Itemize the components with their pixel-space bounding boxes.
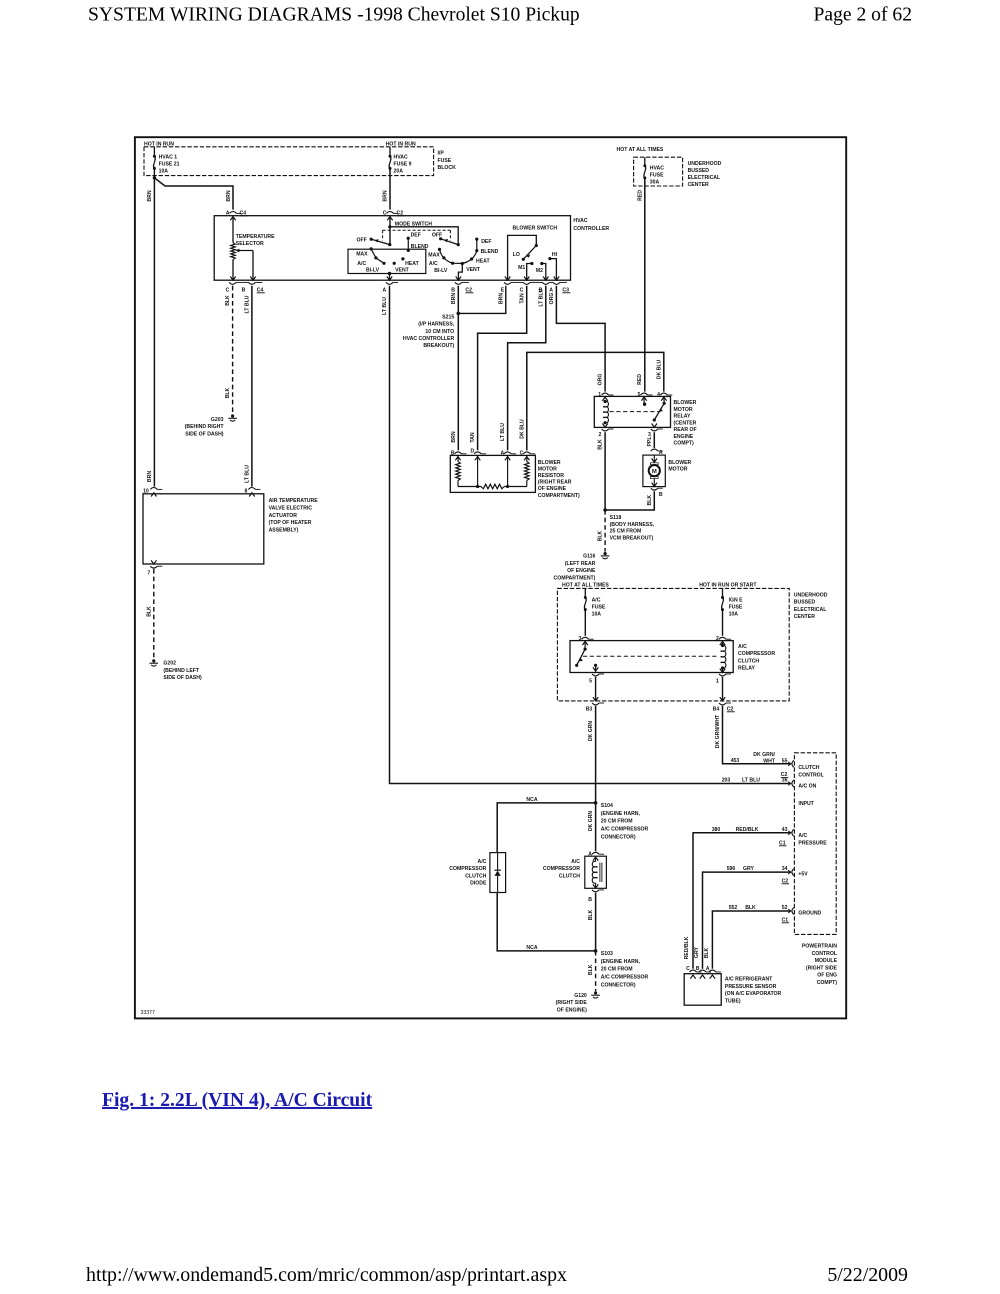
splice S215 <box>457 312 461 316</box>
A/C refrigerant pressure sensor box <box>684 974 721 1006</box>
wire pin1 to UBEC edge B4 C2 <box>722 677 724 701</box>
svg-text:5: 5 <box>589 678 592 684</box>
wire BLK dashed from pin C to G203 <box>232 286 234 414</box>
link to second wafer common <box>390 227 458 245</box>
svg-text:A/C COMPRESSOR: A/C COMPRESSOR <box>601 975 649 981</box>
wafer 2 contact arc <box>440 249 477 263</box>
svg-text:COMPARTMENT): COMPARTMENT) <box>554 575 596 581</box>
clutch coil symbol <box>595 856 597 861</box>
fuse HVAC FUSE 9 20A <box>389 147 391 157</box>
svg-text:380: 380 <box>712 827 721 833</box>
svg-text:A: A <box>226 210 230 216</box>
relay connector pins 1 5 4 <box>602 393 609 395</box>
fuse HVAC FUSE 30A <box>644 157 646 166</box>
svg-text:A: A <box>549 287 553 293</box>
svg-text:S215: S215 <box>442 314 454 320</box>
svg-text:LT BLU: LT BLU <box>500 423 506 441</box>
connector C3 below blower switch <box>504 282 511 284</box>
pin B arrow (controller bottom) <box>250 277 255 281</box>
svg-text:2: 2 <box>716 636 719 642</box>
underhood bussed electrical center dashed box (bottom) <box>557 588 789 701</box>
wafer 1 contact arc <box>371 249 384 263</box>
svg-text:BRN: BRN <box>451 431 457 442</box>
svg-text:ENGINE: ENGINE <box>674 434 694 440</box>
svg-text:SYSTEM WIRING DIAGRAMS -1998 C: SYSTEM WIRING DIAGRAMS -1998 Chevrolet S… <box>88 5 580 26</box>
svg-text:10A: 10A <box>592 611 602 617</box>
svg-text:LT BLU: LT BLU <box>538 288 544 306</box>
svg-text:BRN: BRN <box>147 190 153 201</box>
svg-text:ORG: ORG <box>598 374 604 386</box>
air temperature valve electric actuator box <box>143 494 264 564</box>
svg-text:DK BLU: DK BLU <box>656 360 662 380</box>
svg-text:(BEHIND LEFT: (BEHIND LEFT <box>163 668 200 674</box>
connector pin B C2 below wafer 2 <box>455 282 462 284</box>
svg-text:CLUTCH: CLUTCH <box>465 873 486 879</box>
svg-text:BLK: BLK <box>588 909 594 920</box>
svg-text:1: 1 <box>716 678 719 684</box>
wire BLK dashed to G120 <box>595 951 597 991</box>
svg-text:BRN: BRN <box>451 293 457 304</box>
sensor pin connectors C B A <box>690 970 697 972</box>
fuse HVAC 1 FUSE 21 10A <box>153 147 155 157</box>
svg-text:C: C <box>383 210 387 216</box>
svg-text:A/C ON: A/C ON <box>798 784 816 790</box>
svg-text:BLK: BLK <box>704 947 710 958</box>
pin 7 connector (actuator bottom) <box>151 560 156 564</box>
wafer 1 HEAT contact <box>401 257 404 260</box>
svg-text:HOT AT ALL TIMES: HOT AT ALL TIMES <box>617 147 664 153</box>
wire BRN from fuse 9 to pin C C2 <box>389 168 391 209</box>
powertrain control module dashed box <box>794 753 836 935</box>
svg-text:(LEFT REAR: (LEFT REAR <box>565 561 596 567</box>
svg-text:S103: S103 <box>601 951 613 957</box>
junction below fuse 21 <box>153 168 155 177</box>
svg-text:OF ENGINE: OF ENGINE <box>538 486 567 492</box>
svg-text:20 CM FROM: 20 CM FROM <box>601 967 633 973</box>
svg-text:HI: HI <box>552 252 558 258</box>
svg-text:BI-LV: BI-LV <box>434 268 448 274</box>
svg-text:203: 203 <box>722 778 731 784</box>
connector pin C C2 (controller top) <box>387 212 394 214</box>
svg-text:C: C <box>520 287 524 293</box>
ground G202 <box>152 659 155 662</box>
svg-text:3: 3 <box>579 636 582 642</box>
wire RED from fuse 30A to blower motor relay pin 5 <box>644 179 646 392</box>
svg-text:TAN: TAN <box>519 293 525 303</box>
svg-text:BLK: BLK <box>146 606 152 617</box>
svg-text:(TOP OF HEATER: (TOP OF HEATER <box>269 520 312 526</box>
M2 contact <box>540 262 543 265</box>
svg-text:B: B <box>659 492 663 498</box>
svg-text:A/C: A/C <box>798 833 807 839</box>
relay dashed linkage <box>610 411 661 413</box>
wire TAN from pin C to resistor pin D <box>478 286 527 451</box>
svg-text:CENTER: CENTER <box>688 182 709 188</box>
svg-text:(RIGHT SIDE: (RIGHT SIDE <box>806 965 838 971</box>
wire DK GRN/WHT B4 to PCM pin 55 <box>723 706 791 764</box>
svg-text:CLUTCH: CLUTCH <box>738 658 759 664</box>
blower motor resistor box <box>450 455 535 492</box>
svg-text:BLK: BLK <box>225 295 231 306</box>
wire NCA top <box>497 803 595 853</box>
svg-text:55: 55 <box>782 759 788 765</box>
svg-text:G202: G202 <box>163 661 176 667</box>
svg-text:A/C: A/C <box>357 261 366 267</box>
wire DK GRN B3 to S104 <box>595 706 597 803</box>
clutch relay pins 3 and 2 connectors <box>582 637 589 639</box>
wire RED/BLK sensor C to PCM pin 43 <box>692 833 695 969</box>
svg-text:CONTROLLER: CONTROLLER <box>573 226 609 232</box>
svg-text:M: M <box>652 469 657 475</box>
svg-text:VALVE ELECTRIC: VALVE ELECTRIC <box>269 506 313 512</box>
wire PPL relay pin 3 to motor pin A <box>653 432 655 448</box>
PCM pin 55 connector <box>788 762 791 766</box>
wire BLK dashed to G116 <box>604 510 606 552</box>
PCM pin 43 connector <box>788 831 791 835</box>
svg-text:A/C: A/C <box>571 859 580 865</box>
svg-text:RELAY: RELAY <box>674 414 692 420</box>
svg-text:MOTOR: MOTOR <box>674 407 693 413</box>
svg-text:BRN: BRN <box>383 190 389 201</box>
svg-text:B: B <box>242 287 246 293</box>
schematic border frame <box>135 137 846 1018</box>
svg-text:PPL: PPL <box>647 437 653 447</box>
svg-text:CONNECTOR): CONNECTOR) <box>601 983 636 989</box>
svg-text:MOTOR: MOTOR <box>668 467 687 473</box>
wire DK GRN S104 to clutch pin A <box>595 803 597 851</box>
svg-text:DK GRN: DK GRN <box>588 721 594 742</box>
blower motor box <box>643 455 665 487</box>
relay pins 2 3 connectors <box>602 429 609 431</box>
PCM pin 34 connector <box>788 870 791 874</box>
relay pin 5 contact <box>643 396 645 404</box>
svg-text:DEF: DEF <box>411 233 421 239</box>
blower motor relay box <box>594 396 670 427</box>
splice S118 <box>603 508 607 512</box>
svg-text:HVAC 1: HVAC 1 <box>159 154 178 160</box>
svg-text:RED: RED <box>637 374 643 385</box>
svg-text:FUSE: FUSE <box>592 605 606 611</box>
svg-text:BLEND: BLEND <box>411 244 429 250</box>
svg-text:S104: S104 <box>601 803 613 809</box>
svg-text:COMPRESSOR: COMPRESSOR <box>738 651 775 657</box>
svg-text:GRY: GRY <box>694 946 700 958</box>
wafer 1 common output <box>388 272 391 275</box>
wire BRN down to actuator pin 10 <box>153 178 155 487</box>
svg-text:RESISTOR: RESISTOR <box>538 473 564 479</box>
wafer 1 DEF-BLEND contacts <box>407 237 410 240</box>
HI contact <box>548 257 551 260</box>
svg-text:C: C <box>225 287 229 293</box>
svg-text:G116: G116 <box>583 553 595 559</box>
svg-text:30A: 30A <box>650 179 660 185</box>
svg-text:VENT: VENT <box>395 268 410 274</box>
svg-text:UNDERHOOD: UNDERHOOD <box>688 161 722 167</box>
svg-text:36: 36 <box>782 778 788 784</box>
mode switch feed wire and junction <box>389 217 391 245</box>
svg-text:7: 7 <box>147 571 150 577</box>
svg-text:CLUTCH: CLUTCH <box>798 765 819 771</box>
wafer 1 VENT contact <box>393 262 396 265</box>
wire pin5 to UBEC edge B3 <box>595 677 597 701</box>
svg-text:Page 2 of 62: Page 2 of 62 <box>814 5 913 26</box>
svg-text:(BEHIND RIGHT: (BEHIND RIGHT <box>185 424 225 430</box>
svg-text:43: 43 <box>782 827 788 833</box>
clutch relay switch <box>584 641 586 650</box>
svg-text:BUSSED: BUSSED <box>688 168 710 174</box>
svg-text:(RIGHT REAR: (RIGHT REAR <box>538 480 572 486</box>
svg-text:RED/BLK: RED/BLK <box>684 936 690 959</box>
svg-text:CLUTCH: CLUTCH <box>559 873 580 879</box>
resistor connector pins B D A C <box>455 452 462 454</box>
motor pin B connector <box>651 488 658 490</box>
blower switch feed line <box>508 235 537 280</box>
svg-text:COMPT): COMPT) <box>674 441 695 447</box>
connector pin 8 (actuator top) <box>248 488 255 490</box>
clutch pin A connector <box>592 852 599 854</box>
ground G203 <box>231 414 234 417</box>
svg-text:SIDE OF DASH): SIDE OF DASH) <box>163 675 202 681</box>
svg-text:HEAT: HEAT <box>476 258 490 264</box>
svg-text:DEF: DEF <box>481 239 491 245</box>
wire DK BLU resistor pin C to relay pin 4 <box>527 352 664 450</box>
connector pin A C4 (controller top) <box>230 212 237 214</box>
svg-text:BLEND: BLEND <box>481 249 499 255</box>
pin C arrow (controller bottom) <box>230 277 235 281</box>
splice S104 <box>594 801 598 805</box>
svg-text:COMPT): COMPT) <box>817 980 838 986</box>
A/C compressor clutch relay box <box>570 641 733 673</box>
svg-text:552: 552 <box>729 905 738 911</box>
mechanical linkage dashed line <box>383 229 451 231</box>
svg-text:OFF: OFF <box>357 237 367 243</box>
svg-text:A/C: A/C <box>429 261 438 267</box>
HVAC controller box <box>214 216 570 281</box>
svg-text:ELECTRICAL: ELECTRICAL <box>794 607 827 613</box>
svg-text:B3: B3 <box>586 706 593 712</box>
svg-text:WHT: WHT <box>763 759 776 765</box>
svg-text:A/C: A/C <box>592 598 601 604</box>
svg-text:IGN E: IGN E <box>729 598 744 604</box>
mode switch wafer 1 position box <box>348 249 426 273</box>
svg-text:SELECTOR: SELECTOR <box>236 241 264 247</box>
svg-text:BLK: BLK <box>647 495 653 506</box>
svg-text:CENTER: CENTER <box>794 614 815 620</box>
wire BLK dashed to G202 <box>153 569 155 659</box>
svg-text:OF ENGINE: OF ENGINE <box>567 568 596 574</box>
svg-text:TUBE): TUBE) <box>725 999 741 1005</box>
wire BRN branch to HVAC controller pin A <box>154 178 233 210</box>
svg-text:C: C <box>686 966 690 972</box>
relay coil <box>602 397 607 401</box>
svg-text:GRY: GRY <box>743 866 755 872</box>
svg-text:INPUT: INPUT <box>798 801 814 807</box>
svg-text:http://www.ondemand5.com/mric/: http://www.ondemand5.com/mric/common/asp… <box>86 1264 567 1286</box>
svg-text:BI-LV: BI-LV <box>366 268 380 274</box>
wire BRN wafer2 output to S215 and resistor pin B <box>457 286 459 451</box>
clutch relay pins 5 1 connectors <box>592 674 599 676</box>
wafer 2 common output jog <box>458 264 462 281</box>
potentiometer wiper arm <box>239 250 253 252</box>
svg-text:52: 52 <box>782 905 788 911</box>
svg-text:DK GRN/: DK GRN/ <box>753 752 775 758</box>
svg-text:10 CM INTO: 10 CM INTO <box>425 329 454 335</box>
wire A/C fuse to relay pin 3 <box>584 610 586 636</box>
svg-text:HEAT: HEAT <box>405 261 419 267</box>
svg-text:VCM BREAKOUT): VCM BREAKOUT) <box>610 535 654 541</box>
ground G116 <box>604 552 607 555</box>
clutch relay dashed linkage <box>583 655 719 657</box>
ground G120 <box>594 991 597 994</box>
svg-text:CONTROL: CONTROL <box>798 772 823 778</box>
underhood bussed electrical center dashed box (top) <box>634 157 683 186</box>
svg-text:33377: 33377 <box>141 1010 156 1016</box>
svg-text:A/C: A/C <box>478 859 487 865</box>
svg-text:I/P: I/P <box>438 151 445 157</box>
relay switch arm <box>663 397 665 403</box>
svg-text:453: 453 <box>731 758 740 764</box>
svg-text:RED: RED <box>637 190 643 201</box>
svg-text:(RIGHT SIDE: (RIGHT SIDE <box>556 1000 588 1006</box>
svg-text:MAX: MAX <box>356 252 368 258</box>
svg-text:10A: 10A <box>159 169 169 175</box>
svg-text:BLK: BLK <box>225 387 231 398</box>
svg-text:M1: M1 <box>518 265 525 271</box>
svg-text:COMPRESSOR: COMPRESSOR <box>543 866 580 872</box>
svg-text:PRESSURE SENSOR: PRESSURE SENSOR <box>725 984 777 990</box>
svg-text:CONTROL: CONTROL <box>812 951 837 957</box>
connector pin 10 (actuator top) <box>150 488 157 490</box>
temperature selector potentiometer <box>232 217 234 243</box>
wire LT BLU from pin B to actuator pin 8 <box>251 286 253 487</box>
svg-text:BRN: BRN <box>147 471 153 482</box>
svg-text:MAX: MAX <box>428 252 440 258</box>
PCM pin 52 connector <box>788 909 791 913</box>
svg-text:BRN: BRN <box>226 190 232 201</box>
wire BLK motor pin B to S118 <box>605 491 654 510</box>
wire NCA bottom <box>497 893 595 951</box>
fuse IGN E FUSE 10A <box>722 588 724 597</box>
connector pin A below wafer 1 <box>386 282 393 284</box>
svg-text:COMPRESSOR: COMPRESSOR <box>449 866 486 872</box>
blower switch pin arrows <box>505 277 510 281</box>
svg-text:G120: G120 <box>574 993 587 999</box>
svg-text:REAR OF: REAR OF <box>674 427 697 433</box>
PCM pin 36 connector <box>788 782 791 786</box>
connector C4 below controller (pins C and B) <box>229 282 236 284</box>
wire ORG from pin A to relay pin 1 <box>556 286 605 392</box>
svg-text:NCA: NCA <box>526 797 537 803</box>
svg-text:(BODY HARNESS,: (BODY HARNESS, <box>610 522 655 528</box>
wire BLK clutch pin B to S103 <box>595 893 597 951</box>
svg-text:2: 2 <box>599 432 602 438</box>
svg-text:ACTUATOR: ACTUATOR <box>269 513 298 519</box>
svg-text:PRESSURE: PRESSURE <box>798 840 827 846</box>
svg-text:DK GRN: DK GRN <box>588 811 594 832</box>
svg-text:NCA: NCA <box>526 945 537 951</box>
svg-text:ELECTRICAL: ELECTRICAL <box>688 175 721 181</box>
svg-text:Fig. 1: 2.2L (VIN 4), A/C Circ: Fig. 1: 2.2L (VIN 4), A/C Circuit <box>102 1090 373 1111</box>
clutch pin B connector <box>592 890 599 892</box>
svg-text:FUSE: FUSE <box>438 158 452 164</box>
svg-text:A/C REFRIGERANT: A/C REFRIGERANT <box>725 977 773 983</box>
svg-text:MOTOR: MOTOR <box>538 466 557 472</box>
svg-text:(ENGINE HARN,: (ENGINE HARN, <box>601 811 641 817</box>
svg-text:BLOWER: BLOWER <box>538 460 561 466</box>
svg-text:BREAKOUT): BREAKOUT) <box>423 343 454 349</box>
svg-text:LT BLU: LT BLU <box>245 295 251 313</box>
svg-text:GROUND: GROUND <box>798 910 821 916</box>
svg-text:TAN: TAN <box>470 432 476 442</box>
svg-text:(I/P HARNESS,: (I/P HARNESS, <box>418 322 454 328</box>
svg-text:(ON A/C EVAPORATOR: (ON A/C EVAPORATOR <box>725 991 782 997</box>
svg-text:POWERTRAIN: POWERTRAIN <box>802 944 837 950</box>
svg-text:LT BLU: LT BLU <box>742 778 760 784</box>
svg-text:BLOCK: BLOCK <box>438 165 457 171</box>
svg-text:20 CM FROM: 20 CM FROM <box>601 819 633 825</box>
svg-text:BLOWER: BLOWER <box>674 400 697 406</box>
svg-text:LO: LO <box>513 252 520 258</box>
svg-text:LT BLU: LT BLU <box>382 297 388 315</box>
wire IGN E fuse to relay pin 2 <box>722 610 724 636</box>
svg-text:+5V: +5V <box>798 871 808 877</box>
svg-text:HOT IN RUN OR START: HOT IN RUN OR START <box>699 583 757 589</box>
svg-text:LT BLU: LT BLU <box>245 465 251 483</box>
svg-text:MODULE: MODULE <box>815 958 838 964</box>
wire LT BLU long run to PCM pin 36 <box>390 286 791 784</box>
svg-text:(ENGINE HARN,: (ENGINE HARN, <box>601 959 641 965</box>
A/C compressor clutch box <box>585 856 607 888</box>
svg-text:AIR TEMPERATURE: AIR TEMPERATURE <box>269 498 319 504</box>
svg-text:FUSE 21: FUSE 21 <box>159 162 180 168</box>
svg-text:A/C COMPRESSOR: A/C COMPRESSOR <box>601 827 649 833</box>
svg-text:HVAC: HVAC <box>650 166 664 172</box>
I/P fuse block dashed box <box>144 147 434 176</box>
svg-text:FUSE: FUSE <box>650 173 664 179</box>
svg-text:CONNECTOR): CONNECTOR) <box>601 835 636 841</box>
svg-text:E: E <box>501 287 505 293</box>
svg-text:HVAC CONTROLLER: HVAC CONTROLLER <box>403 336 455 342</box>
diode symbol <box>497 853 499 871</box>
svg-text:M2: M2 <box>536 268 543 274</box>
wire GRY sensor B to PCM pin 34 <box>703 872 791 969</box>
connector B3 <box>592 703 599 705</box>
svg-text:5/22/2009: 5/22/2009 <box>827 1264 908 1286</box>
M1 contact <box>530 262 533 265</box>
svg-text:HOT AT ALL TIMES: HOT AT ALL TIMES <box>562 583 609 589</box>
svg-text:FUSE 9: FUSE 9 <box>394 162 412 168</box>
svg-text:COMPARTMENT): COMPARTMENT) <box>538 493 580 499</box>
svg-text:S118: S118 <box>610 515 622 521</box>
svg-text:34: 34 <box>782 866 788 872</box>
connector B4 C2 <box>719 703 726 705</box>
A/C compressor clutch diode box <box>490 853 506 893</box>
svg-text:A/C: A/C <box>738 644 747 650</box>
blower switch arm to LO <box>523 246 536 260</box>
svg-text:B4: B4 <box>713 706 720 712</box>
svg-text:BLK: BLK <box>745 905 756 911</box>
splice S103 <box>594 949 598 953</box>
svg-text:25 CM FROM: 25 CM FROM <box>610 529 642 535</box>
svg-text:B: B <box>696 966 700 972</box>
svg-text:FUSE: FUSE <box>729 605 743 611</box>
svg-text:BLK: BLK <box>598 439 604 450</box>
wafer 2 DEF contact <box>475 238 478 241</box>
svg-text:BLK: BLK <box>598 530 604 541</box>
wire LT BLU from pin B to resistor pin A <box>508 286 546 451</box>
svg-text:10A: 10A <box>729 611 739 617</box>
resistor elements <box>457 455 459 461</box>
